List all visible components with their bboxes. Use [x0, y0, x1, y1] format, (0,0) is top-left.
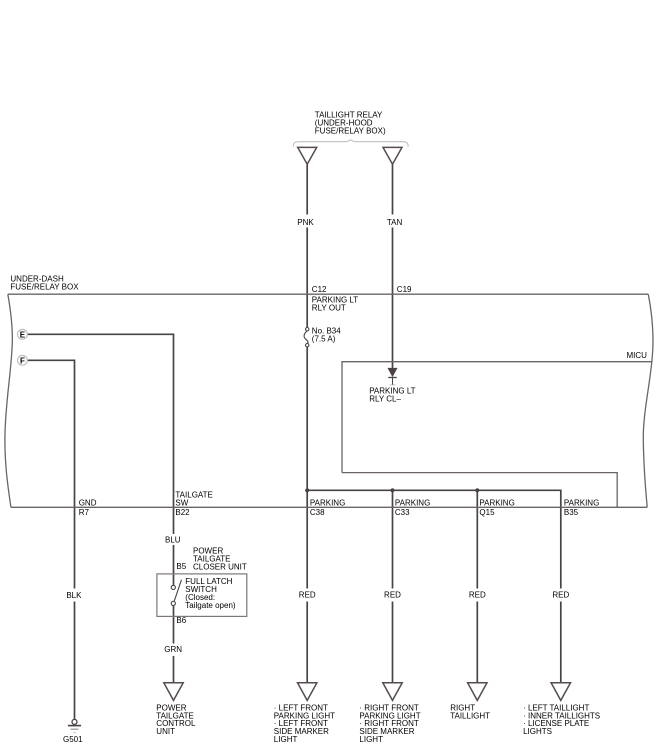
svg-text:GRN: GRN: [164, 645, 182, 654]
svg-text:FUSE/RELAY BOX: FUSE/RELAY BOX: [10, 283, 79, 292]
svg-text:Tailgate open): Tailgate open): [185, 601, 236, 610]
svg-text:TAN: TAN: [387, 218, 403, 227]
svg-text:FUSE/RELAY BOX): FUSE/RELAY BOX): [315, 126, 386, 135]
svg-text:C12: C12: [312, 285, 327, 294]
svg-text:B5: B5: [176, 562, 186, 571]
svg-text:PARKING: PARKING: [564, 498, 599, 507]
svg-text:RED: RED: [299, 591, 316, 600]
svg-text:MICU: MICU: [627, 351, 648, 360]
svg-text:GND: GND: [79, 498, 97, 507]
svg-text:(7.5 A): (7.5 A): [312, 334, 336, 343]
svg-text:SW: SW: [175, 498, 188, 507]
svg-text:RED: RED: [469, 591, 486, 600]
svg-text:LIGHTS: LIGHTS: [523, 727, 552, 736]
svg-text:RED: RED: [384, 591, 401, 600]
svg-text:RLY OUT: RLY OUT: [312, 303, 346, 312]
svg-text:CLOSER UNIT: CLOSER UNIT: [193, 562, 247, 571]
svg-text:B6: B6: [176, 616, 186, 625]
svg-text:C38: C38: [310, 508, 325, 517]
svg-text:TAILLIGHT: TAILLIGHT: [450, 711, 490, 720]
svg-text:LIGHT: LIGHT: [359, 735, 383, 744]
svg-text:E: E: [20, 331, 26, 340]
svg-text:F: F: [20, 357, 25, 366]
svg-text:RLY CL–: RLY CL–: [369, 394, 401, 403]
svg-text:PARKING: PARKING: [310, 498, 345, 507]
svg-text:C19: C19: [397, 285, 412, 294]
svg-text:Q15: Q15: [479, 508, 495, 517]
svg-text:BLU: BLU: [165, 535, 181, 544]
svg-text:PARKING: PARKING: [479, 498, 514, 507]
svg-text:C33: C33: [395, 508, 410, 517]
svg-text:PARKING: PARKING: [395, 498, 430, 507]
svg-text:B35: B35: [564, 508, 579, 517]
svg-text:R7: R7: [79, 508, 90, 517]
svg-text:LIGHT: LIGHT: [274, 735, 298, 744]
svg-text:RED: RED: [552, 591, 569, 600]
svg-text:BLK: BLK: [66, 591, 82, 600]
svg-text:G501: G501: [63, 735, 83, 744]
svg-text:PNK: PNK: [297, 218, 314, 227]
svg-text:UNIT: UNIT: [156, 727, 175, 736]
svg-text:B22: B22: [175, 508, 190, 517]
